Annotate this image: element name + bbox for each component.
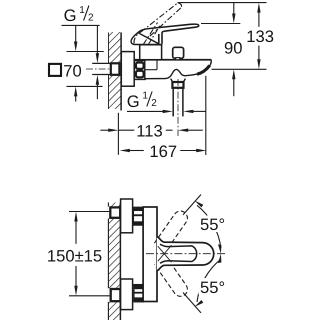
- label G 1/2 (at shower outlet): [127, 91, 206, 113]
- hand-shower outlet collar: [171, 79, 186, 82]
- plan centerline: [146, 253, 227, 255]
- lower supply union (behind wall): [111, 289, 121, 301]
- svg-text:2: 2: [88, 12, 94, 23]
- 55deg radial extension (upper): [183, 195, 201, 215]
- dimension 90: [201, 3, 242, 97]
- svg-text:150±15: 150±15: [47, 247, 102, 266]
- svg-text:G: G: [64, 6, 77, 25]
- upper supply union (behind wall): [110, 207, 120, 217]
- svg-text:2: 2: [151, 98, 157, 109]
- cartridge dome: [131, 33, 159, 45]
- lever handle (horizontal position): [138, 24, 199, 44]
- spout outlet lip (dark crescent): [197, 65, 210, 74]
- upper escutcheon (plan): [121, 199, 133, 233]
- faucet body bar (plan): [143, 207, 157, 302]
- svg-text:1: 1: [79, 5, 85, 16]
- upper union nut (plan): [133, 207, 142, 225]
- hand-shower pipe: [173, 88, 183, 117]
- svg-text:1: 1: [142, 91, 148, 102]
- 55deg arc (upper): [197, 205, 221, 248]
- square symbol + 70 text: [49, 61, 82, 80]
- wall openings: [108, 207, 121, 219]
- svg-text:113: 113: [136, 121, 162, 140]
- supply pipe stub (G 1/2 inlet): [92, 63, 111, 74]
- dimension 113: [100, 121, 203, 140]
- lower union nut (plan): [134, 285, 143, 302]
- diverter knob: [173, 47, 184, 59]
- wall opening for supply pipe: [108, 63, 122, 75]
- wall (plan view, hatched): [108, 203, 120, 320]
- label G 1/2 (top left): [62, 5, 100, 26]
- spout outer outline (plan): [157, 237, 214, 271]
- dimension 133: [178, 3, 274, 70]
- hand-shower nut: [172, 82, 183, 88]
- dimension 70 (escutcheon): [67, 25, 104, 101]
- dashed lever position -55deg: [154, 256, 190, 299]
- wall escutcheon (square 70): [121, 52, 134, 87]
- 55deg arc (lower): [197, 259, 221, 302]
- pivot cross: [158, 245, 172, 262]
- extension line (wall surface): [117, 113, 119, 155]
- lever outline on spout (plan): [160, 244, 197, 263]
- pipe centerline: [177, 79, 179, 136]
- dashed lever position +55deg: [154, 208, 190, 251]
- 55deg radial extension (lower): [183, 293, 201, 313]
- svg-text:55°: 55°: [200, 215, 225, 234]
- dimension 167: [120, 142, 207, 161]
- lever raised position (dash-dot): [134, 3, 182, 45]
- supply centerline: [86, 68, 133, 70]
- 55deg labels: [199, 216, 232, 233]
- wall (side view, hatched): [108, 32, 121, 111]
- extension line (spout tip): [205, 76, 207, 155]
- svg-text:90: 90: [224, 38, 242, 57]
- cartridge block: [139, 44, 163, 59]
- svg-text:G: G: [127, 92, 140, 111]
- G1/2 leader arrows at supply pipe: [96, 25, 99, 99]
- union nut at body: [134, 61, 145, 80]
- faucet body / spout (side view): [134, 60, 211, 79]
- dimension 150 +/- 15: [47, 212, 111, 296]
- svg-text:70: 70: [63, 61, 81, 80]
- lower escutcheon (plan): [121, 279, 133, 310]
- svg-text:55°: 55°: [200, 278, 225, 297]
- svg-text:167: 167: [149, 142, 177, 161]
- S-union nut behind wall: [111, 63, 120, 75]
- svg-text:133: 133: [246, 27, 274, 46]
